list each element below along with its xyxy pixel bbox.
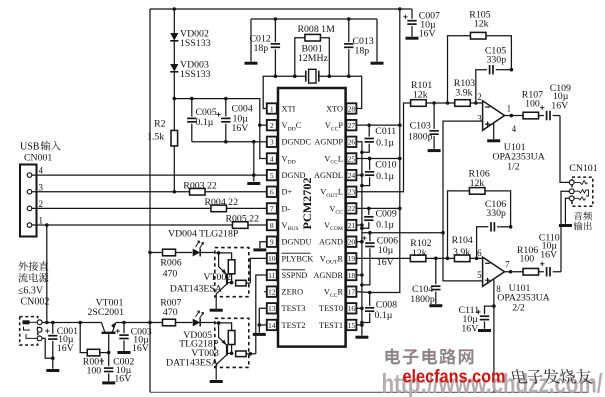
- wire: VCOM bus to op-amp + inputs: [362, 232, 443, 234]
- svg-text:1.5k: 1.5k: [147, 132, 164, 143]
- svg-text:9: 9: [270, 238, 274, 247]
- resistor R106 100 (output): [523, 268, 539, 275]
- wire: bottom border rail: [150, 391, 589, 393]
- wire: top +5V rail: [150, 8, 412, 10]
- node: D+ pullup junction: [173, 190, 177, 194]
- op-amp U101 1/2 OPA2353UA: [483, 101, 505, 131]
- svg-text:4: 4: [512, 124, 517, 134]
- svg-text:16V: 16V: [57, 343, 74, 354]
- svg-text:15: 15: [348, 321, 356, 330]
- capacitor C001 10u 16V: [48, 323, 57, 369]
- svg-text:ZERO: ZERO: [282, 288, 304, 297]
- svg-text:≤6.3V: ≤6.3V: [18, 286, 44, 297]
- svg-text:0.1µ: 0.1µ: [376, 138, 394, 149]
- wire: DGNDC down to DGND row: [253, 142, 255, 182]
- capacitor C009 0.1u: [362, 208, 374, 228]
- wire: op-amp1 + input to VCOM rail: [443, 121, 483, 281]
- svg-text:PCM2702: PCM2702: [300, 178, 314, 230]
- resistor R003 22: [190, 188, 206, 195]
- wire: pin20 AGND stub: [356, 241, 362, 243]
- svg-text:16V: 16V: [232, 123, 249, 134]
- wire: VDDC stub pin2: [260, 124, 267, 126]
- capacitor C013 18p: [344, 19, 353, 76]
- svg-text:C011: C011: [375, 126, 396, 137]
- VT002 internals: [215, 251, 251, 308]
- svg-text:TEST0: TEST0: [319, 304, 343, 313]
- svg-text:14: 14: [268, 321, 276, 330]
- svg-text:C009: C009: [376, 209, 397, 220]
- svg-text:1: 1: [270, 104, 274, 113]
- svg-text:4: 4: [270, 154, 274, 163]
- wire: CN001 pin3 (D+) row: [32, 191, 189, 193]
- capacitor C008 0.1u: [362, 293, 375, 323]
- wire: pin25 VccL to VCC rail: [356, 157, 399, 159]
- wire: R008 right leg: [321, 38, 330, 76]
- svg-text:AGNDR: AGNDR: [313, 271, 343, 280]
- node: pin2 tee: [258, 123, 262, 127]
- svg-text:12MHz: 12MHz: [298, 53, 329, 64]
- svg-text:7: 7: [270, 204, 274, 213]
- wire: VT001 emitter row: [116, 322, 162, 324]
- svg-text:330p: 330p: [486, 208, 506, 219]
- wire: CN001 pin1 (VBUS) row: [32, 224, 232, 226]
- svg-text:4: 4: [39, 166, 44, 176]
- wire: pin24 AGNDL stub: [356, 174, 362, 176]
- wire: VDD rail to IC pin2/pin4: [174, 99, 266, 159]
- svg-text:2SC2001: 2SC2001: [88, 307, 125, 318]
- svg-text:SSPND: SSPND: [282, 271, 308, 280]
- svg-text:2/2: 2/2: [512, 303, 525, 314]
- svg-text:2: 2: [477, 92, 482, 102]
- ground symbol VT002 collector: [210, 309, 223, 312]
- wire: VCC rail (x=399.8) from top rail to pin17 row: [370, 9, 400, 293]
- svg-text:12: 12: [268, 287, 276, 296]
- ground symbol AGND rail: [355, 336, 368, 339]
- node: C105 tap (inverting node): [474, 101, 478, 105]
- svg-text:0.1µ: 0.1µ: [196, 117, 214, 128]
- wire: pin16 TEST0 stub: [356, 307, 362, 309]
- wire: AGND rail (x=361.9): [356, 142, 362, 336]
- wire: pin19 VoutR to R102: [356, 257, 410, 259]
- resistor R107 100: [523, 112, 539, 119]
- svg-text:16V: 16V: [419, 28, 436, 39]
- wire: R2 to D+ row: [173, 146, 175, 192]
- capacitor C012 18p: [271, 19, 280, 76]
- svg-text:DGNDU: DGNDU: [282, 238, 312, 247]
- svg-text:6: 6: [477, 248, 482, 258]
- wire: op-amp2 output: [505, 271, 524, 273]
- resistor R104 3.9k: [454, 255, 470, 262]
- op-amp U101 2/2 OPA2353UA: [483, 257, 505, 286]
- svg-text:0.1µ: 0.1µ: [376, 171, 394, 182]
- LED VD005 TLG218P: [193, 311, 215, 326]
- svg-text:2: 2: [39, 199, 44, 209]
- capacitor C110 10u 16V: [539, 267, 561, 276]
- svg-text:16V: 16V: [540, 250, 557, 261]
- diode VD003 1SS133: [170, 41, 178, 72]
- svg-text:8: 8: [270, 221, 274, 230]
- wire: L output down to CN101 tip: [560, 116, 569, 183]
- ground symbol below DGND row: [247, 182, 260, 185]
- resistor R005 22: [232, 222, 248, 229]
- wire: pin15 TEST1 stub: [356, 324, 362, 326]
- wire: CN101 sleeve to ground: [565, 198, 569, 224]
- svg-text:PLYBCK: PLYBCK: [282, 254, 314, 263]
- svg-text:VT002: VT002: [203, 272, 231, 283]
- svg-text:330p: 330p: [487, 55, 507, 66]
- capacitor C004 10u 16V: [221, 99, 230, 142]
- svg-text:12k: 12k: [470, 178, 485, 189]
- svg-text:470: 470: [163, 269, 178, 280]
- svg-text:D+: D+: [282, 188, 293, 197]
- svg-text:7: 7: [505, 260, 510, 270]
- svg-text:C010: C010: [375, 159, 396, 170]
- svg-text:D-: D-: [282, 204, 291, 213]
- svg-text:27: 27: [348, 121, 356, 130]
- svg-text:3.9k: 3.9k: [453, 247, 470, 258]
- wire: DC power row to VT001 collector: [42, 322, 102, 324]
- svg-text:24: 24: [348, 171, 356, 180]
- IC U: PCM2702 body: [278, 88, 346, 347]
- wire: PLYBCK to VT002: [250, 258, 266, 283]
- svg-text:DGND: DGND: [282, 171, 306, 180]
- wire: pin27 VccP to VCC rail: [356, 124, 399, 126]
- connector CN001 USB input: [20, 165, 37, 237]
- wire: R103 to op-amp inverting input: [470, 102, 482, 104]
- svg-text:16: 16: [348, 304, 356, 313]
- wire: pin13/14 TEST3/TEST2 stubs to ground: [259, 308, 267, 332]
- svg-text:R004 22: R004 22: [205, 197, 239, 208]
- svg-text:1800p: 1800p: [408, 131, 433, 142]
- wire: C005/C004 ground bus to pin3 DGNDC: [192, 141, 254, 143]
- svg-text:16V: 16V: [114, 374, 131, 385]
- svg-text:0.1µ: 0.1µ: [375, 310, 393, 321]
- wire: pin23 VoutL to R101: [356, 103, 411, 192]
- svg-text:1: 1: [507, 104, 512, 114]
- wire: CN001 pin4 to IC pin5 DGND: [32, 174, 267, 176]
- svg-text:12k: 12k: [412, 248, 427, 259]
- svg-text:18p: 18p: [254, 43, 269, 54]
- ground symbol VT003 collector: [210, 380, 223, 383]
- svg-text:R006: R006: [160, 258, 181, 269]
- svg-text:R003 22: R003 22: [183, 180, 217, 191]
- svg-text:DAT143ESA: DAT143ESA: [170, 284, 222, 295]
- resistor R102 12k: [410, 255, 426, 262]
- svg-text:16V: 16V: [132, 343, 149, 354]
- svg-text:R005 22: R005 22: [226, 214, 260, 225]
- wire: op-amp1 V- to ground: [493, 123, 495, 139]
- capacitor C006 10u 16V (VCOM): [362, 233, 375, 285]
- VT003 internals: [215, 321, 256, 380]
- svg-text:17: 17: [348, 287, 356, 296]
- watermark: calligraphy brand: [511, 369, 528, 383]
- capacitor C010 0.1u: [362, 158, 374, 185]
- wire: pin18 AGNDR stub: [356, 274, 362, 276]
- svg-text:1: 1: [39, 216, 44, 226]
- svg-text:16V: 16V: [551, 100, 568, 111]
- svg-text:XTO: XTO: [326, 104, 343, 113]
- svg-text:CN101: CN101: [569, 163, 597, 174]
- svg-text:DAT143ESA: DAT143ESA: [166, 357, 218, 368]
- resistor R101 12k: [411, 100, 427, 107]
- node: C111 tap: [492, 304, 496, 308]
- svg-text:18: 18: [348, 271, 356, 280]
- wire: R output up to CN101 ring: [561, 191, 569, 272]
- svg-text:11: 11: [268, 271, 276, 280]
- wire: pin9 DGNDU stub to ground: [260, 242, 267, 249]
- node: R106 feedback tap: [446, 257, 450, 261]
- svg-text:AGNDL: AGNDL: [314, 171, 343, 180]
- wire: pin22 Vcc to VCC rail: [356, 207, 399, 209]
- resistor R103 3.9k: [455, 100, 471, 107]
- node: C106 tap (inverting node 2): [475, 257, 479, 261]
- svg-text:1SS133: 1SS133: [180, 38, 211, 49]
- svg-text:TEST3: TEST3: [282, 304, 306, 313]
- wire: XTI from crystal to pin1: [263, 76, 275, 108]
- ground symbol op-amp1: [487, 139, 500, 142]
- wire: XTO from crystal to pin28: [349, 76, 362, 108]
- svg-text:TEST1: TEST1: [319, 321, 343, 330]
- svg-text:16V: 16V: [461, 324, 478, 335]
- svg-text:C103: C103: [410, 120, 431, 131]
- wire: R101 to R103 row: [426, 102, 456, 104]
- wire: CN001 pin2 (D-) row: [32, 207, 211, 209]
- svg-text:1800p: 1800p: [410, 294, 435, 305]
- svg-text:25: 25: [348, 154, 356, 163]
- capacitor C003 10u 16V: [119, 323, 128, 351]
- capacitor C104 1800p: [431, 258, 440, 304]
- wire: SSPND to VT003: [249, 352, 253, 356]
- wire: op-amp1 output: [505, 115, 524, 117]
- node: VDD rail junction: [173, 97, 177, 101]
- ground symbol below DGNDU: [253, 248, 266, 251]
- resistor R007 470: [162, 319, 192, 326]
- capacitor C109 10u 16V: [539, 111, 560, 120]
- label external DC power: [18, 261, 27, 270]
- wire: crystal ground rail (y=19): [250, 19, 252, 62]
- node: R105 feedback tap: [446, 101, 450, 105]
- svg-text:3: 3: [270, 138, 274, 147]
- svg-text:DGNDC: DGNDC: [282, 138, 312, 147]
- node: C104 tap: [434, 257, 438, 261]
- label audio output: [574, 212, 583, 221]
- svg-text:3: 3: [39, 182, 44, 192]
- svg-text:XTI: XTI: [282, 104, 296, 113]
- svg-text:12k: 12k: [413, 89, 428, 100]
- node: R006 tap on 5V frame: [148, 251, 152, 255]
- wire: CN002 sleeve to ground: [42, 338, 53, 358]
- overline on SSPND: [282, 269, 306, 271]
- connector CN101 audio output jack: [569, 177, 593, 206]
- svg-text:12k: 12k: [474, 19, 489, 30]
- wire: pin12 ZERO stub (nc): [264, 291, 267, 293]
- svg-text:26: 26: [348, 138, 356, 147]
- capacitor C106 330p (feedback 2): [477, 222, 511, 258]
- svg-text:100: 100: [525, 99, 540, 110]
- capacitor C002 10u 16V: [104, 353, 113, 382]
- LED VD004 TLG218P: [193, 241, 215, 256]
- capacitor C011 0.1u: [362, 125, 374, 152]
- diode VD002 1SS133: [170, 9, 178, 41]
- connector CN002 DC jack: [20, 317, 42, 345]
- svg-text:VD004 TLG218P: VD004 TLG218P: [168, 229, 239, 240]
- svg-text:20: 20: [348, 238, 356, 247]
- wire: VBUS down to DC power row: [46, 225, 48, 322]
- transistor VT001 2SC2001: [102, 323, 116, 352]
- svg-text:5: 5: [270, 171, 274, 180]
- svg-text:100: 100: [520, 254, 535, 265]
- wire: R008 left leg: [295, 38, 305, 76]
- digital transistor VT003 DAT143ESA (dashed module): [215, 318, 249, 367]
- capacitor C105 330p (feedback): [476, 65, 512, 103]
- svg-text:3: 3: [477, 114, 482, 124]
- svg-text:10: 10: [268, 254, 276, 263]
- watermark: big grey site name: [385, 348, 400, 364]
- node: feedback junction at output: [510, 114, 514, 118]
- svg-text:6: 6: [270, 188, 274, 197]
- svg-text:R008 1M: R008 1M: [298, 24, 336, 35]
- wire: R104 to op-amp2 inverting input: [470, 257, 483, 259]
- node: VBUS tap to power section: [45, 223, 49, 227]
- svg-text:23: 23: [348, 188, 356, 197]
- svg-text:AGND: AGND: [319, 238, 343, 247]
- wire: pin21 Vcom stub: [356, 224, 362, 226]
- svg-text:elecfans.com: elecfans.com: [403, 366, 506, 387]
- node: top rail / diode chain junction: [173, 7, 177, 11]
- ground symbol right of C013: [371, 62, 384, 65]
- svg-text:1SS133: 1SS133: [180, 69, 211, 80]
- capacitor C007 10u 16V (5V rail decoupling): [407, 9, 416, 37]
- capacitor C111 10u 16V: [480, 306, 494, 329]
- wire: op-amp2 V+ down to bottom rail: [493, 280, 495, 393]
- IC pin boxes and labels: [267, 103, 357, 113]
- resistor R105 12k (feedback): [448, 32, 512, 103]
- capacitor C103 1800p: [429, 103, 438, 149]
- wire: VDD node vertical (diode output) down to R2: [173, 72, 175, 131]
- svg-text:0.1µ: 0.1µ: [376, 219, 394, 230]
- svg-text:10µ: 10µ: [378, 245, 394, 256]
- overline on PLYBCK: [282, 252, 311, 254]
- resistor R008 1M: [305, 34, 321, 41]
- crystal B001 12MHz: [275, 69, 348, 83]
- svg-text:CN002: CN002: [21, 297, 50, 308]
- ground symbol CN101: [559, 224, 572, 227]
- svg-text:TEST2: TEST2: [282, 321, 306, 330]
- node: C103 tap: [432, 101, 436, 105]
- node: VCC rail top: [398, 7, 402, 11]
- node: feedback junction at output 2: [509, 270, 513, 274]
- svg-text:C008: C008: [376, 300, 397, 311]
- svg-text:3.9k: 3.9k: [455, 87, 472, 98]
- svg-text:28: 28: [348, 104, 356, 113]
- ground symbol left of C012: [245, 62, 258, 65]
- capacitor C005 0.1u: [187, 99, 196, 142]
- ground symbol below TEST2: [253, 333, 266, 336]
- resistor R2 1.5k: [171, 130, 178, 146]
- svg-text:100: 100: [87, 366, 102, 377]
- svg-text:CN001: CN001: [24, 153, 52, 164]
- svg-text:19: 19: [348, 254, 356, 263]
- svg-text:1/2: 1/2: [507, 161, 520, 172]
- resistor R006 470: [150, 249, 192, 256]
- wire: left frame vertical (5V): [149, 9, 151, 392]
- svg-text:USB: USB: [20, 142, 40, 153]
- svg-text:18p: 18p: [355, 46, 370, 57]
- svg-text:470: 470: [163, 307, 178, 318]
- digital transistor VT002 DAT143ESA (dashed module): [215, 248, 249, 297]
- resistor R106 12k (feedback): [448, 188, 511, 259]
- node: C008 top junction: [368, 291, 372, 295]
- svg-text:5: 5: [477, 270, 482, 280]
- svg-text:21: 21: [348, 221, 356, 230]
- svg-text:AGNDP: AGNDP: [314, 138, 343, 147]
- svg-text:22: 22: [348, 204, 356, 213]
- svg-text:13: 13: [268, 304, 276, 313]
- resistor R001 100: [80, 323, 109, 356]
- svg-text:2: 2: [270, 121, 274, 130]
- svg-text:R2: R2: [154, 119, 166, 130]
- resistor R004 22: [211, 205, 227, 212]
- wire: R102 to R104 row: [426, 257, 457, 259]
- svg-text:R104: R104: [452, 235, 473, 246]
